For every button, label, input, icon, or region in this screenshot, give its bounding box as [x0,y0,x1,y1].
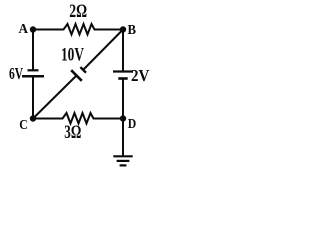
svg-text:2Ω: 2Ω [69,2,87,22]
svg-text:10V: 10V [61,46,84,66]
svg-text:C: C [19,118,28,133]
svg-text:6V: 6V [9,64,23,83]
svg-text:2V: 2V [131,66,149,85]
svg-text:B: B [128,23,137,38]
svg-text:A: A [19,21,29,36]
svg-text:D: D [128,117,137,132]
svg-text:3Ω: 3Ω [64,123,81,143]
